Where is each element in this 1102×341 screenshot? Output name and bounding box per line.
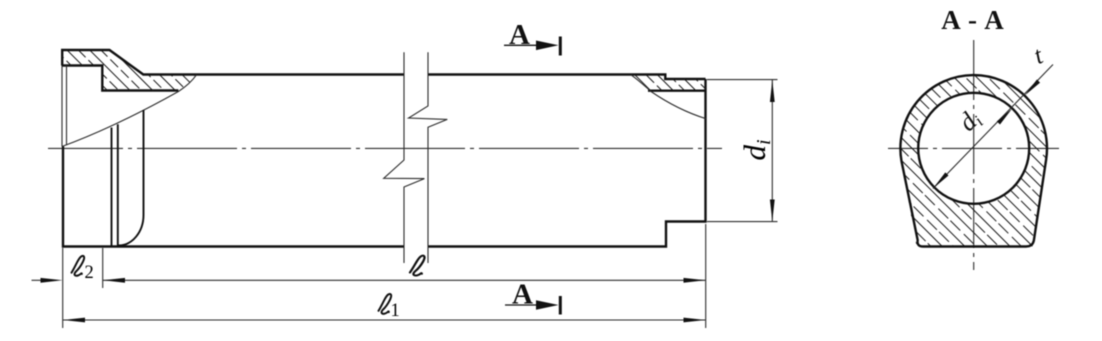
socket hatching region xyxy=(55,45,205,97)
label t xyxy=(1030,42,1048,70)
spigot section break curve xyxy=(631,75,706,119)
socket interior step edge 2 xyxy=(117,124,119,246)
socket section break curve xyxy=(62,75,197,147)
section arrow top xyxy=(504,19,560,56)
svg-text:A - A: A - A xyxy=(941,5,1005,35)
svg-text:A: A xyxy=(509,19,530,51)
extension line left l1 xyxy=(62,248,64,328)
socket interior bore edge with bottom arc xyxy=(119,110,144,246)
di arrow lower xyxy=(933,172,949,188)
dimension l2 xyxy=(32,278,63,283)
section view title A - A xyxy=(941,5,1005,35)
pipe bottom outline xyxy=(63,79,706,247)
extension line right xyxy=(705,224,707,328)
svg-text:1: 1 xyxy=(391,301,400,321)
svg-text:2: 2 xyxy=(85,263,94,283)
spigot wall inner edge xyxy=(648,89,706,91)
section view vertical centerline xyxy=(973,40,975,270)
svg-text:A: A xyxy=(512,279,533,311)
pipe centerline xyxy=(48,147,722,149)
section bore circle xyxy=(918,93,1029,204)
dimension l xyxy=(103,278,706,283)
label l1 xyxy=(379,294,400,321)
label di in section xyxy=(953,103,987,138)
spigot end hatching xyxy=(625,70,710,96)
label l xyxy=(410,256,425,276)
extension line l2 right xyxy=(102,248,104,288)
section arrow bottom xyxy=(505,279,560,315)
di arrow upper xyxy=(997,108,1013,124)
break line left with zigzag xyxy=(384,52,425,263)
di and t leader diagonal xyxy=(933,65,1053,189)
label l2 xyxy=(72,256,94,283)
socket interior step edge 1 xyxy=(111,128,113,247)
socket rim section outline xyxy=(62,50,705,91)
dimension l1 xyxy=(63,318,706,323)
section view horizontal centerline xyxy=(888,147,1059,149)
socket mouth inner edges xyxy=(62,66,67,147)
t arrow at outer circle xyxy=(1025,80,1041,96)
break line right with zigzag xyxy=(409,52,448,263)
dimension di right end xyxy=(707,80,778,222)
section outer profile xyxy=(890,70,1060,252)
